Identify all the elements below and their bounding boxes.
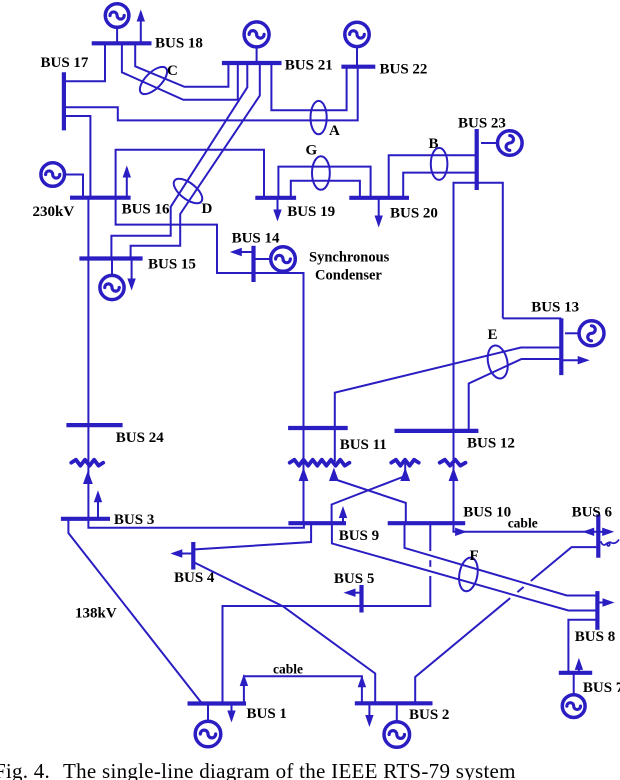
wire 19-20 circuit 2 (through transformer G): [291, 181, 360, 198]
label F: [470, 548, 479, 564]
label BUS 3: [114, 512, 154, 528]
transformer zigzag 10-12: [440, 460, 466, 466]
transformer C: [135, 62, 171, 98]
bus bar BUS 3: [61, 517, 110, 521]
label Condenser: [315, 268, 382, 284]
bus bar BUS 19: [255, 196, 296, 200]
transformer A: [311, 101, 327, 134]
arrow transformer 3-24: [83, 471, 93, 485]
label BUS 6: [572, 504, 613, 520]
wire 12-13 (through transformer E): [469, 359, 562, 431]
label BUS 4: [174, 570, 215, 586]
label BUS 8: [575, 629, 615, 645]
wire 7-8: [568, 620, 597, 673]
label BUS 13: [531, 299, 579, 315]
transformer zigzag 3-24: [71, 460, 103, 466]
generator at BUS 1: [195, 704, 221, 747]
arrowhead on cable near BUS 10: [455, 528, 467, 536]
generator at BUS 22: [345, 22, 369, 66]
label BUS 19: [287, 204, 335, 220]
svg-text:E: E: [488, 327, 498, 343]
wire 2-4: [193, 562, 375, 703]
load arrow BUS 4: [170, 549, 193, 557]
label BUS 21: [285, 57, 333, 73]
arrow into transformer 10-12: [449, 468, 459, 482]
arrow into transformer 10-11: [329, 468, 339, 482]
svg-text:BUS 10: BUS 10: [463, 504, 511, 520]
generator at BUS 23: [481, 131, 522, 156]
transformer zigzag under BUS 11: [290, 460, 350, 466]
wire 8-10 (through transformer F): [405, 523, 598, 595]
wire 15-16 / 15-24 / 3-24: [87, 198, 89, 519]
load arrow BUS 20: [375, 198, 383, 228]
label BUS 20: [390, 206, 438, 222]
wire cable 6-10: [454, 523, 599, 532]
svg-text:BUS 19: BUS 19: [287, 204, 335, 220]
label BUS 14: [232, 231, 280, 247]
wire 16-19: [116, 150, 264, 198]
svg-text:F: F: [470, 548, 479, 564]
wire 14-16: [116, 198, 254, 273]
bus bar BUS 6 (vertical): [596, 514, 600, 557]
label E: [488, 327, 498, 343]
svg-text:BUS 5: BUS 5: [334, 571, 374, 587]
load arrow BUS 6: [598, 528, 614, 536]
bus bar BUS 15: [79, 256, 142, 260]
svg-text:BUS 16: BUS 16: [122, 202, 170, 218]
label BUS 17: [41, 55, 89, 71]
transformer G: [312, 156, 330, 190]
wire 11-14 / 9-11: [254, 273, 304, 523]
wire 8-9 (through transformer F): [332, 523, 598, 610]
label BUS 2: [409, 707, 449, 723]
svg-text:BUS 22: BUS 22: [380, 62, 428, 78]
wire 17-22 (through transformer A): [64, 67, 358, 121]
label 230kV: [33, 204, 75, 220]
load arrow BUS 1: [227, 704, 235, 723]
wire 11-13 (through transformer E): [335, 348, 562, 463]
load arrow BUS 2: [365, 703, 373, 727]
svg-text:230kV: 230kV: [33, 204, 75, 220]
svg-text:BUS 15: BUS 15: [148, 257, 196, 273]
svg-text:BUS 4: BUS 4: [174, 570, 215, 586]
generator at BUS 15: [100, 259, 124, 300]
transformer E: [485, 344, 511, 381]
load arrow BUS 5: [344, 589, 362, 597]
bus bar BUS 7: [559, 671, 592, 675]
wire 3-9: [88, 519, 304, 528]
svg-text:cable: cable: [273, 662, 303, 677]
wire 12-23: [454, 183, 477, 431]
bus bar BUS 21: [222, 61, 282, 65]
wire 20-23 circuit 1 (through transformer B): [389, 155, 477, 198]
label B: [429, 136, 439, 152]
load arrow BUS 8: [597, 598, 614, 606]
wire 9-12 (X crossing): [332, 462, 406, 523]
svg-text:BUS 20: BUS 20: [390, 206, 438, 222]
bus bar BUS 11: [288, 426, 348, 430]
bus bar BUS 18: [92, 41, 152, 45]
cable squiggle at BUS 6: [601, 540, 619, 546]
label BUS 16: [122, 202, 170, 218]
wire 4-9: [193, 523, 311, 549]
svg-text:BUS 9: BUS 9: [339, 528, 379, 544]
wire 13-23 horizontal into BUS 13: [503, 317, 562, 319]
arrow into transformer 9-11: [299, 468, 309, 482]
label A: [329, 123, 340, 139]
svg-text:BUS 6: BUS 6: [572, 504, 613, 520]
wire 19-20 circuit 1 (through transformer G): [278, 167, 370, 198]
bus bar BUS 13 (vertical): [559, 318, 563, 375]
label C: [167, 63, 178, 79]
label BUS 18: [155, 36, 203, 52]
svg-text:BUS 23: BUS 23: [458, 116, 506, 132]
label Synchronous: [309, 250, 390, 266]
wire 1-5 / 5-10: [223, 523, 431, 703]
label BUS 10: [463, 504, 511, 520]
svg-text:Condenser: Condenser: [315, 268, 382, 284]
svg-text:G: G: [306, 143, 318, 159]
wire 20-23 circuit 2 (through transformer B): [403, 173, 477, 198]
bus bar BUS 12: [395, 429, 479, 433]
wire 1-3 (138kV): [68, 519, 202, 704]
bus bar BUS 17 (vertical): [62, 72, 66, 130]
svg-text:A: A: [329, 123, 340, 139]
bus bar BUS 8 (vertical): [595, 591, 599, 630]
label BUS 23: [458, 116, 506, 132]
bus bar BUS 4 (vertical): [191, 542, 195, 570]
wire 17-18: [64, 43, 105, 81]
svg-text:BUS 14: BUS 14: [232, 231, 280, 247]
generator at BUS 18: [105, 4, 129, 44]
label BUS 12: [467, 436, 515, 452]
label cable (6-10): [508, 516, 538, 531]
label 138kV: [75, 606, 117, 622]
svg-text:BUS 2: BUS 2: [409, 707, 449, 723]
svg-text:BUS 24: BUS 24: [116, 430, 164, 446]
svg-text:B: B: [429, 136, 439, 152]
load arrow BUS 19: [273, 198, 281, 222]
wire 10-11 (X crossing): [334, 470, 406, 523]
wire 2-6: [415, 547, 598, 703]
label G: [306, 143, 318, 159]
label BUS 11: [340, 437, 387, 453]
bus bar BUS 2: [355, 701, 433, 705]
generator at BUS 2: [384, 703, 410, 747]
label BUS 15: [148, 257, 196, 273]
load arrow BUS 14: [230, 248, 254, 256]
transformer zigzag 9-12: [391, 460, 418, 466]
label BUS 24: [116, 430, 164, 446]
generator at BUS 13: [565, 321, 604, 346]
svg-text:D: D: [202, 201, 213, 217]
bus bar BUS 22: [341, 65, 375, 69]
wire 10-12: [453, 431, 455, 523]
load arrow BUS 15: [127, 259, 135, 291]
svg-text:BUS 1: BUS 1: [247, 706, 287, 722]
svg-text:BUS 7: BUS 7: [583, 680, 620, 696]
wire 18-21 circuit 1 (through transformer C): [135, 43, 228, 87]
load arrow BUS 3: [94, 490, 102, 519]
label BUS 22: [380, 62, 428, 78]
svg-text:BUS 8: BUS 8: [575, 629, 615, 645]
svg-text:BUS 13: BUS 13: [531, 299, 579, 315]
wire 16-17: [64, 116, 91, 198]
wire 13-23: [477, 183, 503, 319]
svg-text:BUS 17: BUS 17: [41, 55, 89, 71]
svg-text:C: C: [167, 63, 178, 79]
bus bar BUS 1: [188, 701, 247, 705]
bus bar BUS 23 (vertical): [475, 129, 479, 190]
svg-text:Fig. 4.: Fig. 4.: [0, 759, 50, 780]
svg-text:cable: cable: [508, 516, 538, 531]
bus bar BUS 16: [70, 196, 131, 200]
generator at BUS 21: [244, 22, 269, 63]
svg-text:The single-line diagram of the: The single-line diagram of the IEEE RTS-…: [63, 759, 516, 780]
svg-text:BUS 12: BUS 12: [467, 436, 515, 452]
svg-text:BUS 3: BUS 3: [114, 512, 154, 528]
transformer D: [170, 174, 207, 208]
bus bar BUS 5 (vertical): [359, 585, 363, 613]
wire 21-22 (through transformer A): [271, 63, 346, 110]
load arrow BUS 9: [339, 506, 347, 523]
generator at BUS 7: [562, 673, 585, 718]
label BUS 1: [247, 706, 287, 722]
bus bar BUS 10: [388, 521, 466, 525]
generator 230kV at BUS 16: [41, 163, 83, 198]
arrowhead on cable at BUS 1 side: [240, 674, 248, 686]
svg-text:BUS 21: BUS 21: [285, 57, 333, 73]
label BUS 7: [583, 680, 620, 696]
wire cable 1-2: [244, 676, 362, 703]
synchronous condenser at BUS 14: [254, 247, 296, 272]
svg-text:BUS 18: BUS 18: [155, 36, 203, 52]
load arrow BUS 13: [561, 356, 589, 364]
bus bar BUS 24: [66, 423, 122, 427]
transformer F: [457, 556, 481, 593]
label BUS 9: [339, 528, 379, 544]
load arrow BUS 18: [137, 10, 145, 44]
label BUS 5: [334, 571, 374, 587]
wire 15-21 circuit 2 (through transformer D): [131, 63, 260, 259]
svg-text:Synchronous: Synchronous: [309, 250, 390, 266]
label cable (1-2): [273, 662, 303, 677]
caption: [0, 759, 516, 780]
arrowhead on cable at BUS 2 side: [358, 675, 366, 687]
wire 15-21 circuit 1 (through transformer D): [111, 63, 247, 259]
arrow into transformer 9-12: [400, 468, 410, 482]
load arrow BUS 7: [575, 658, 583, 673]
svg-text:138kV: 138kV: [75, 606, 117, 622]
bus bar BUS 14 (vertical): [251, 246, 255, 282]
wire 18-21 circuit 2 (through transformer C): [122, 43, 238, 100]
bus bar BUS 20: [349, 196, 409, 200]
label D: [202, 201, 213, 217]
load arrow BUS 16: [123, 166, 131, 198]
arrowhead on cable near BUS 6: [582, 528, 594, 536]
svg-text:BUS 11: BUS 11: [340, 437, 387, 453]
transformer B: [431, 148, 448, 180]
bus bar BUS 9: [288, 521, 346, 525]
